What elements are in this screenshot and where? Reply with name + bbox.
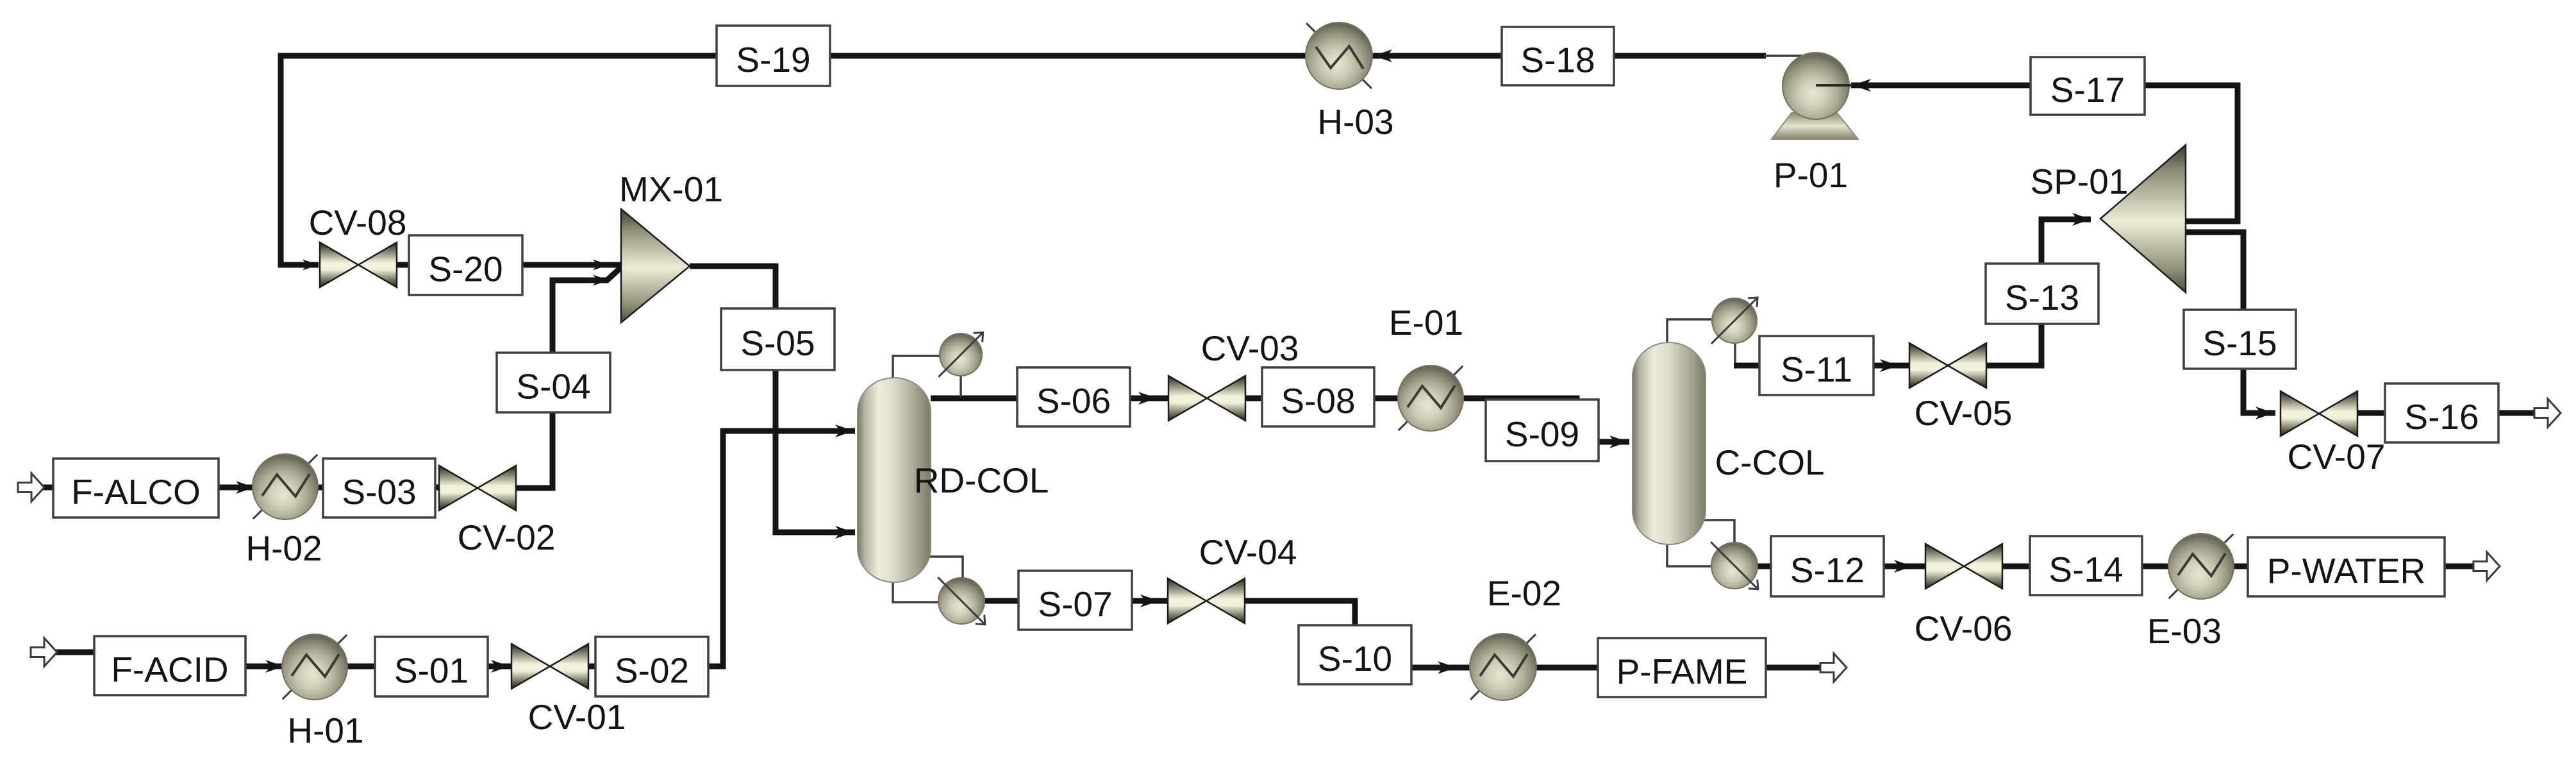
svg-text:F-ACID: F-ACID <box>111 650 228 689</box>
svg-text:CV-06: CV-06 <box>1915 609 2013 648</box>
svg-text:S-12: S-12 <box>1790 550 1865 590</box>
svg-text:S-09: S-09 <box>1505 414 1579 454</box>
svg-text:E-02: E-02 <box>1487 573 1561 613</box>
svg-text:S-15: S-15 <box>2202 323 2277 363</box>
svg-text:F-ALCO: F-ALCO <box>71 472 201 512</box>
svg-text:S-02: S-02 <box>615 651 689 691</box>
svg-text:SP-01: SP-01 <box>2031 162 2129 201</box>
svg-text:S-01: S-01 <box>394 651 469 691</box>
svg-text:P-WATER: P-WATER <box>2267 551 2425 591</box>
svg-text:S-10: S-10 <box>1318 639 1392 678</box>
svg-text:CV-04: CV-04 <box>1199 532 1297 572</box>
svg-text:S-17: S-17 <box>2050 70 2125 110</box>
svg-text:S-07: S-07 <box>1038 584 1112 624</box>
svg-text:CV-03: CV-03 <box>1201 328 1299 368</box>
svg-text:S-06: S-06 <box>1036 381 1111 421</box>
svg-text:H-01: H-01 <box>287 711 363 750</box>
svg-text:MX-01: MX-01 <box>619 169 723 209</box>
svg-text:C-COL: C-COL <box>1715 442 1824 482</box>
svg-text:CV-07: CV-07 <box>2288 437 2386 476</box>
svg-text:E-03: E-03 <box>2147 611 2222 651</box>
svg-text:P-FAME: P-FAME <box>1616 652 1748 691</box>
svg-text:S-03: S-03 <box>342 472 416 512</box>
svg-text:P-01: P-01 <box>1774 155 1848 195</box>
svg-text:S-14: S-14 <box>2048 550 2123 589</box>
svg-text:CV-01: CV-01 <box>528 697 626 737</box>
svg-text:S-18: S-18 <box>1520 40 1595 80</box>
svg-text:S-20: S-20 <box>428 249 503 289</box>
svg-text:E-01: E-01 <box>1389 303 1463 342</box>
svg-text:H-03: H-03 <box>1317 102 1393 142</box>
svg-text:RD-COL: RD-COL <box>914 460 1049 500</box>
svg-text:H-02: H-02 <box>245 528 322 568</box>
svg-text:S-19: S-19 <box>736 40 810 80</box>
svg-text:CV-08: CV-08 <box>309 203 407 242</box>
svg-text:S-13: S-13 <box>2005 278 2079 317</box>
svg-text:S-08: S-08 <box>1281 381 1355 421</box>
svg-text:S-11: S-11 <box>1781 350 1852 389</box>
svg-text:CV-02: CV-02 <box>458 518 556 557</box>
svg-text:S-05: S-05 <box>740 323 815 363</box>
svg-text:S-04: S-04 <box>516 367 590 407</box>
svg-text:S-16: S-16 <box>2404 397 2479 437</box>
svg-text:CV-05: CV-05 <box>1915 393 2013 433</box>
